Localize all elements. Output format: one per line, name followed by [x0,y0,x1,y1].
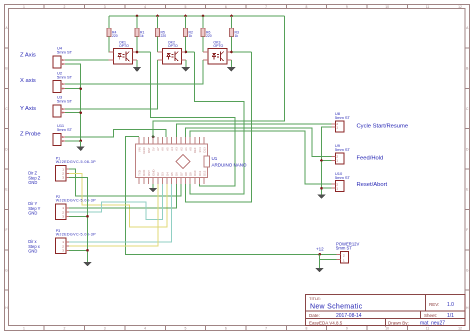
junction OK3 collector [230,51,233,54]
svg-text:F: F [466,228,468,232]
svg-text:5mm ST: 5mm ST [57,74,73,79]
wire U2 pin2 to bus [65,88,81,90]
junction on rail above R6 [202,15,205,18]
svg-text:WJ2EDGVC-5.08-3P: WJ2EDGVC-5.08-3P [56,233,96,237]
svg-text:ARDUINO NANO: ARDUINO NANO [212,163,248,168]
junction OK1 collector [136,51,139,54]
svg-text:X axis: X axis [20,78,36,84]
svg-text:Cycle Start/Resume: Cycle Start/Resume [357,124,409,130]
svg-text:220: 220 [112,34,118,38]
junction [320,159,323,162]
ground [315,268,323,272]
svg-text:10: 10 [385,327,389,331]
opto emitter ground [185,60,187,67]
svg-text:1: 1 [23,327,25,331]
ground [80,141,82,147]
OK2 pin stubs [158,51,163,53]
wire U11 pin2 to bus [65,140,81,142]
svg-text:5mm ST: 5mm ST [336,246,352,251]
OK1 pin4 collector wire [137,51,151,53]
svg-text:7: 7 [265,327,267,331]
OK1 pin1 wire from 220R [108,51,110,53]
junction [79,87,82,90]
IC U1 ARDUINO NANO [135,144,207,178]
svg-text:D8: D8 [184,172,188,176]
svg-text:2: 2 [63,5,65,9]
svg-text:D3: D3 [161,172,165,176]
svg-text:G: G [5,268,8,272]
ground [83,262,91,266]
svg-text:D2: D2 [156,172,160,176]
connector U2 5mm ST [53,81,61,93]
connector U3 5mm ST [53,105,61,117]
optocoupler OK1 [113,49,132,65]
wire Step Y (P2.2 to D3) [69,184,162,220]
svg-text:EasyEDA V4.8.5: EasyEDA V4.8.5 [309,321,343,326]
junction on rail above R1 [136,15,139,18]
resistor R3 [231,16,233,28]
svg-text:mat_neu27: mat_neu27 [420,321,445,327]
wire A3 to Cycle button [176,124,331,137]
svg-text:D6: D6 [175,172,179,176]
svg-text:Z Axis: Z Axis [20,53,36,59]
connector P2 WJ2EDGVC-5.08-3P [56,204,66,220]
junction OK2 collector [185,51,188,54]
svg-text:5mm ST: 5mm ST [335,115,351,120]
OK3 pin stubs [203,51,208,53]
wire P3 gnd [69,249,88,251]
optocoupler OK2 [162,49,181,65]
svg-text:Z Probe: Z Probe [20,131,41,137]
svg-text:TITLE:: TITLE: [309,296,321,301]
ground at Arduino GND pin [152,184,154,188]
svg-text:A0: A0 [189,147,193,151]
junction on rail above R2 [184,15,187,18]
svg-text:GND: GND [151,169,155,175]
svg-text:8: 8 [306,5,308,9]
wire OK3 collector to D8 [186,52,252,202]
connector U9 5mm ST [335,153,344,164]
svg-text:12: 12 [458,5,462,9]
wire Z axis switch to OK1 pin2 [65,59,109,61]
svg-text:D9: D9 [189,172,193,176]
svg-text:220: 220 [206,34,212,38]
svg-text:A7: A7 [156,147,160,151]
svg-text:D10: D10 [193,170,197,176]
svg-text:G: G [466,268,469,272]
svg-text:11: 11 [426,327,430,331]
svg-text:F: F [5,228,7,232]
wire Dir Z (P1.1 to D7) [69,169,181,196]
svg-text:A4: A4 [170,147,174,151]
svg-text:1k: 1k [235,34,239,38]
svg-text:Date:: Date: [309,313,320,318]
svg-text:10: 10 [385,5,389,9]
wire Step x (P3.2 to D2) [69,184,158,246]
svg-text:GND: GND [28,180,37,185]
svg-text:GND: GND [28,248,37,253]
svg-text:8: 8 [306,327,308,331]
svg-text:5mm ST: 5mm ST [57,127,73,132]
svg-text:5V: 5V [151,147,155,151]
svg-text:REF: REF [193,147,197,153]
svg-text:9: 9 [346,5,348,9]
wire buttons gnd bus [322,127,332,194]
OK3 pin1 wire from 220R [202,51,204,53]
junction [320,187,323,190]
wire power gnd [320,258,337,260]
svg-text:5: 5 [184,327,186,331]
svg-text:+12: +12 [316,247,324,252]
wire gnd bus P connectors [69,178,88,263]
svg-text:6: 6 [225,5,227,9]
svg-text:RST: RST [147,147,151,153]
wire A1 to Feed button [186,128,332,157]
svg-text:OPTO: OPTO [119,44,129,48]
svg-text:5mm ST: 5mm ST [335,175,351,180]
wire U3 pin2 to bus [65,112,81,114]
svg-text:6: 6 [225,327,227,331]
svg-text:3V3: 3V3 [198,147,202,153]
connector POWER12V 5mm ST [340,252,348,264]
svg-text:1.0: 1.0 [447,302,454,308]
svg-text:7: 7 [265,5,267,9]
svg-text:GND: GND [142,147,146,153]
junction [79,140,82,143]
svg-text:220: 220 [161,34,167,38]
svg-text:D13: D13 [202,147,206,153]
junction +12 [318,253,321,256]
svg-text:D4: D4 [165,172,169,176]
svg-text:A2: A2 [179,147,183,151]
wire gnd bus left connectors [65,64,81,141]
opto emitter ground [230,60,232,67]
svg-text:D12: D12 [202,170,206,176]
opto emitter ground [136,60,138,67]
svg-text:5mm ST: 5mm ST [335,147,351,152]
svg-text:OPTO: OPTO [213,44,223,48]
svg-text:A5: A5 [165,147,169,151]
wire Dir x (P3.1 to D5) [69,184,172,242]
connector P1 WJ2EDGVC-5.08-3P [56,165,66,181]
svg-text:12: 12 [458,327,462,331]
svg-text:5mm ST: 5mm ST [57,50,73,55]
wire OK1 collector to D11 [151,52,235,186]
OK2 pin1 wire from 220R [157,51,159,53]
ground [317,194,325,198]
wire Step Z (P1.2 to D4) [69,173,167,227]
svg-text:2017-08-14: 2017-08-14 [336,313,362,319]
svg-text:VIN: VIN [138,147,142,152]
wire +12 top rail [109,15,285,17]
U1 sub box [204,156,209,167]
wire P2 gnd [69,215,88,217]
svg-text:U1: U1 [212,156,218,161]
wire Z probe to Arduino A5 [65,130,166,137]
svg-text:New Schematic: New Schematic [310,304,363,311]
junction on rail above R3 [230,15,233,18]
svg-text:GND: GND [28,211,37,216]
svg-text:Drawn By:: Drawn By: [388,321,409,326]
wire U9 pin1 [322,159,332,161]
svg-text:RXD: RXD [142,170,146,176]
OK2 pin4 collector wire [186,51,195,53]
svg-text:A6: A6 [161,147,165,151]
svg-text:D11: D11 [198,170,202,175]
wire Dir Y (P2.1 to D6) [69,184,176,208]
svg-text:WJ2EDGVC-5.08-3P: WJ2EDGVC-5.08-3P [56,160,96,164]
wire +12 from rail to 5V pin [153,16,284,137]
wire U10 pin1 [322,187,332,189]
svg-text:3: 3 [104,5,106,9]
junction [86,215,89,218]
wire X axis switch to OK3 pin2 [65,60,203,84]
svg-text:5: 5 [184,5,186,9]
svg-text:9: 9 [346,327,348,331]
connector U8 5mm ST [335,121,344,132]
svg-text:4: 4 [144,327,146,331]
junction [79,111,82,114]
svg-text:Y Axis: Y Axis [20,106,36,112]
svg-text:TXD: TXD [138,170,142,176]
OK1 pin stubs [109,51,114,53]
svg-text:A3: A3 [175,147,179,151]
svg-text:Feed/Hold: Feed/Hold [357,155,384,161]
connector U11 5mm ST [53,133,61,145]
svg-text:2: 2 [63,327,65,331]
svg-text:11: 11 [426,5,430,9]
svg-text:Reset/Abort: Reset/Abort [357,182,388,188]
title block [306,295,466,327]
svg-text:OPTO: OPTO [168,44,178,48]
junction on rail above R5 [156,15,159,18]
connector U10 5mm ST [335,181,344,192]
svg-text:1: 1 [23,5,25,9]
svg-text:3: 3 [104,327,106,331]
resistor R4 [108,16,110,28]
svg-text:Sheet:: Sheet: [424,313,437,318]
wire A0 to Reset button [190,131,332,184]
svg-text:A1: A1 [184,147,188,151]
U1 diamond [176,155,190,169]
wire Y axis switch to OK2 pin2 [65,60,158,109]
svg-text:WJ2EDGVC-5.08-3P: WJ2EDGVC-5.08-3P [56,199,96,203]
junction [86,249,89,252]
junction at 5V pin [152,135,155,138]
resistor R1 [136,16,138,28]
OK3 pin4 collector wire [231,51,251,53]
wire power to VIN [125,136,336,254]
svg-text:4: 4 [144,5,146,9]
optocoupler OK3 [208,49,227,65]
svg-text:5mm ST: 5mm ST [57,99,73,104]
wire OK2 collector to D9 [190,52,244,194]
svg-text:1k: 1k [189,34,193,38]
resistor R2 [185,16,187,28]
connector P3 WJ2EDGVC-5.08-3P [56,238,66,254]
svg-text:1/1: 1/1 [447,313,454,319]
connector U4 5mm ST [53,56,61,68]
svg-text:D7: D7 [179,172,183,176]
svg-text:RST: RST [147,170,151,176]
resistor R5 [157,16,159,28]
svg-text:1k: 1k [140,34,144,38]
svg-text:D5: D5 [170,172,174,176]
resistor R6 [202,16,204,28]
svg-text:REV:: REV: [429,302,439,307]
